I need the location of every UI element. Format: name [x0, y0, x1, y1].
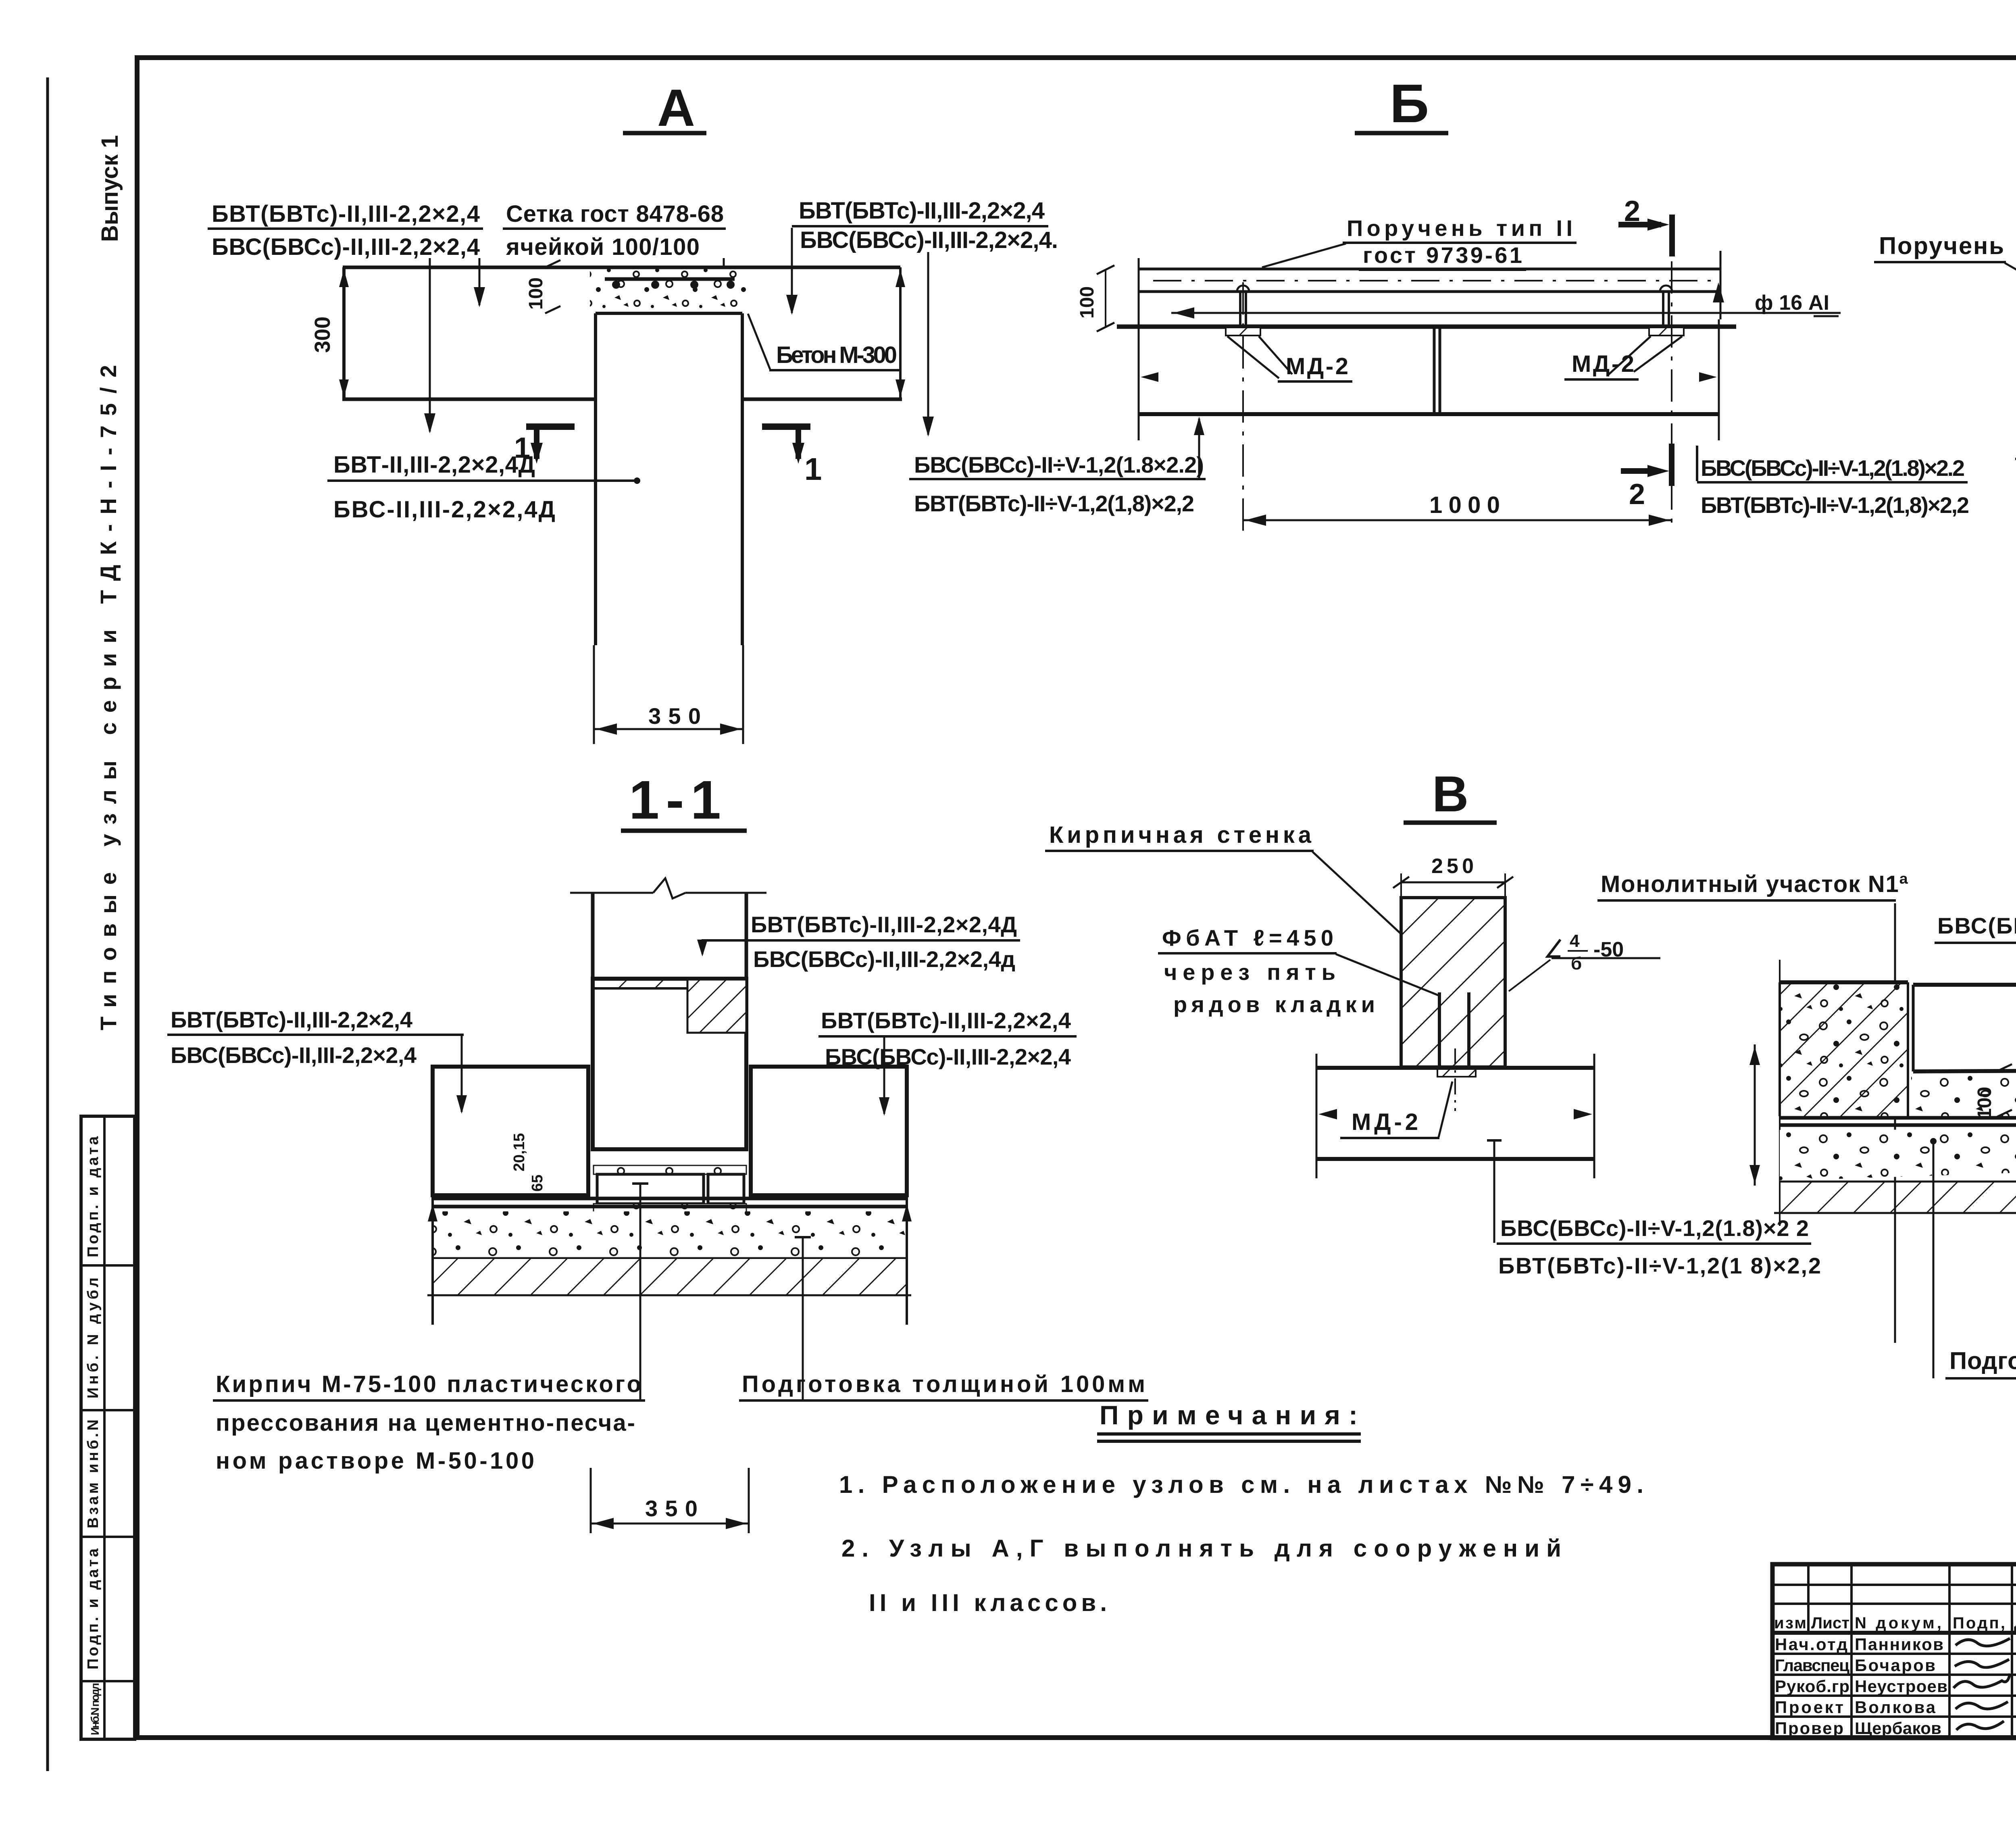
- svg-text:БВС(БВСс)-II÷V-1,2(1.8×2.2): БВС(БВСс)-II÷V-1,2(1.8×2.2): [914, 452, 1204, 477]
- svg-text:Монолитный участок N1ª: Монолитный участок N1ª: [1601, 871, 1908, 897]
- wall above left line: [591, 893, 595, 980]
- post right: [1662, 292, 1664, 327]
- svg-text:ФбАТ ℓ=450: ФбАТ ℓ=450: [1162, 925, 1333, 950]
- svg-text:Сетка гост 8478-68: Сетка гост 8478-68: [506, 201, 724, 227]
- dim 350 extension lines: [593, 645, 595, 744]
- leader V bottom labels: [1487, 1139, 1502, 1142]
- svg-text:350: 350: [648, 703, 701, 729]
- leader kirpich: [639, 1184, 641, 1401]
- svg-text:1: 1: [804, 451, 822, 487]
- rib right line: [741, 313, 744, 645]
- precast slab G: [1913, 983, 2016, 987]
- hatch band G horizontal: [1780, 1182, 2016, 1212]
- svg-text:250: 250: [1431, 854, 1474, 878]
- left block concrete: [1780, 982, 1908, 1116]
- slab left edge / dim 300 line: [342, 267, 346, 399]
- base plate left: [1226, 327, 1260, 336]
- SECTION-B: [909, 73, 1969, 531]
- anchor centerline: [1454, 1048, 1456, 1111]
- leader left short: [479, 258, 481, 305]
- svg-text:МД-2: МД-2: [1352, 1109, 1418, 1135]
- svg-text:БВС(БВСс)-II,III-2,2×2,4: БВС(БВСс)-II,III-2,2×2,4: [171, 1042, 417, 1068]
- svg-text:гост 9739-61: гост 9739-61: [1363, 242, 1522, 268]
- topping concrete stipple: [590, 267, 747, 313]
- svg-text:1-1: 1-1: [629, 769, 721, 830]
- signature scribbles: [1956, 1638, 2010, 1646]
- svg-text:Провер: Провер: [1775, 1719, 1843, 1738]
- left margin stamp table: [81, 1116, 135, 1739]
- leader right short: [791, 228, 793, 313]
- rebar in wall: [1438, 992, 1441, 1069]
- V slab right extension: [1593, 1054, 1595, 1178]
- NOTES: [839, 1400, 1643, 1616]
- svg-text:4: 4: [1570, 931, 1580, 951]
- V slab top line: [1316, 1066, 1594, 1070]
- cut mark 2 bottom: [1669, 444, 1674, 486]
- rail top line: [1139, 268, 1720, 271]
- left dim G: [1754, 1044, 1756, 1186]
- funnel right: [1608, 336, 1651, 375]
- lower slab right extension: [1718, 319, 1720, 440]
- svg-text:Кирпичная стенка: Кирпичная стенка: [1049, 822, 1312, 848]
- funnel left: [1227, 336, 1279, 378]
- rib left line: [594, 313, 597, 645]
- svg-text:изм: изм: [1774, 1614, 1806, 1632]
- label A left underline: [208, 227, 483, 230]
- svg-text:прессования на цементно-песча-: прессования на цементно-песча-: [216, 1410, 635, 1436]
- anchor plate: [1437, 1069, 1476, 1077]
- leader FbAT: [1336, 954, 1440, 996]
- hatched corner: [687, 980, 746, 1033]
- lower slab bottom line: [1139, 412, 1719, 416]
- svg-text:2: 2: [1629, 478, 1645, 511]
- leader mesh: [723, 258, 725, 282]
- svg-text:БВТ(БВТс)-II,III-2,2×2,4: БВТ(БВТс)-II,III-2,2×2,4: [799, 198, 1045, 224]
- svg-text:БВТ-II,III-2,2×2,4Д: БВТ-II,III-2,2×2,4Д: [333, 452, 535, 478]
- leader right deep: [927, 252, 929, 435]
- svg-text:Инб. N дубл: Инб. N дубл: [85, 1278, 102, 1398]
- svg-text:350: 350: [645, 1496, 698, 1521]
- channel inner line: [594, 987, 687, 990]
- svg-text:БВТ(БВТс)-II,III-2,2×2,4: БВТ(БВТс)-II,III-2,2×2,4: [212, 201, 480, 227]
- svg-text:Рукоб.гр: Рукоб.гр: [1775, 1677, 1849, 1696]
- weld mark V: [1547, 940, 1560, 957]
- svg-text:Нач.отд: Нач.отд: [1775, 1635, 1847, 1654]
- reinforcing mesh bar: [605, 277, 735, 281]
- svg-text:Главспец: Главспец: [1775, 1656, 1849, 1675]
- dim 350 line: [594, 728, 743, 730]
- leader left deep: [429, 258, 431, 431]
- svg-text:ячейкой 100/100: ячейкой 100/100: [506, 234, 700, 260]
- svg-text:БВТ(БВТс)-II,III-2,2×2,4Д: БВТ(БВТс)-II,III-2,2×2,4Д: [751, 912, 1017, 937]
- svg-text:20,15: 20,15: [511, 1133, 528, 1171]
- svg-text:Неустроев: Неустроев: [1855, 1677, 1947, 1696]
- mortar band 2: [594, 1204, 746, 1213]
- leader stenka: [1312, 852, 1435, 966]
- svg-text:Инб.N подл: Инб.N подл: [89, 1683, 101, 1735]
- leader 11 topright: [702, 940, 704, 954]
- svg-text:Поручень: Поручень: [1879, 232, 2004, 259]
- svg-text:Волкова: Волкова: [1855, 1698, 1936, 1717]
- svg-text:БВС(БВСс)-II,III-2,2×2,4: БВС(БВСс)-II,III-2,2×2,4: [825, 1044, 1071, 1069]
- svg-text:БВТ(БВТс)-II,III-2,2×2,4: БВТ(БВТс)-II,III-2,2×2,4: [821, 1008, 1071, 1033]
- lower slab left extension: [1138, 347, 1140, 440]
- svg-text:А: А: [657, 78, 695, 137]
- leader B bottomleft: [1198, 419, 1200, 478]
- monolith boundary line: [1894, 903, 1896, 1343]
- cut mark 1 left: [526, 423, 575, 430]
- right boundary: [906, 1195, 908, 1325]
- svg-text:БВС(БВСс)-II,III-2,2×2,4д: БВС(БВСс)-II,III-2,2×2,4д: [753, 946, 1015, 972]
- revision rows: [1772, 1584, 2016, 1586]
- slab joint center: [1433, 327, 1436, 413]
- brick left: [597, 1174, 704, 1204]
- flange bottom right: [742, 398, 902, 401]
- leader 11 right: [883, 1036, 885, 1114]
- svg-text:Панников: Панников: [1855, 1635, 1943, 1654]
- svg-text:БВС-II,III-2,2×2,4Д: БВС-II,III-2,2×2,4Д: [333, 496, 555, 523]
- svg-text:БВТ(БВТс)-II÷V-1,2(1,8)×2,2: БВТ(БВТс)-II÷V-1,2(1,8)×2,2: [914, 491, 1194, 516]
- slab top line: [343, 266, 900, 269]
- svg-text:БВС(БВСс)-II÷V-1,2(1.8)×2 2: БВС(БВСс)-II÷V-1,2(1.8)×2 2: [1500, 1215, 1809, 1241]
- leader poruchen: [1262, 244, 1346, 267]
- svg-text:Бочаров: Бочаров: [1855, 1656, 1935, 1675]
- V slab bottom line: [1316, 1157, 1594, 1161]
- stipple band 1 G: [1911, 1005, 2016, 1119]
- label A bottom leader underline: [327, 479, 639, 482]
- left margin stamp labels: [85, 1136, 102, 1735]
- leader podgotovka 11: [802, 1237, 804, 1401]
- svg-text:Лист: Лист: [1811, 1614, 1849, 1632]
- svg-text:МД-2: МД-2: [1572, 351, 1634, 377]
- svg-text:БВС(БВСс)-II,III-1,2×2,2пВ: БВС(БВСс)-II,III-1,2×2,2пВ: [1937, 913, 2016, 938]
- SECTION-22: [1874, 81, 2016, 586]
- mesh dots: [612, 281, 620, 289]
- underlay concrete layer: [433, 1211, 907, 1258]
- ground hatch layer: [433, 1259, 907, 1294]
- rail centerline: [1153, 280, 1714, 281]
- svg-text:100: 100: [525, 277, 547, 310]
- svg-text:Дата: Дата: [2014, 1614, 2016, 1632]
- SECTION-V: [1045, 766, 1821, 1278]
- label B bottomright bracket: [1696, 446, 1698, 481]
- base plate right: [1649, 327, 1684, 336]
- right slab box: [751, 1067, 907, 1195]
- revision columns: [1807, 1564, 1810, 1633]
- left slab box: [433, 1067, 588, 1195]
- leader 11 left: [461, 1035, 463, 1112]
- mortar band 1: [594, 1165, 746, 1174]
- svg-text:б: б: [1571, 954, 1582, 973]
- svg-text:65: 65: [529, 1175, 546, 1192]
- SECTION-A: [208, 78, 1058, 744]
- svg-text:Б: Б: [1390, 73, 1429, 134]
- svg-text:Щербаков: Щербаков: [1855, 1719, 1941, 1738]
- break line top: [570, 892, 653, 894]
- left boundary: [431, 1195, 434, 1325]
- svg-text:ном растворе М-50-100: ном растворе М-50-100: [216, 1448, 534, 1474]
- wall above right line: [745, 893, 748, 980]
- brick right: [708, 1174, 744, 1204]
- label A mesh underline: [503, 227, 726, 230]
- svg-text:300: 300: [310, 317, 335, 353]
- dim 1000 ext right: [1671, 261, 1672, 531]
- rail left extension: [1138, 258, 1140, 347]
- svg-text:БВС(БВСс)-II,III-2,2×2,4: БВС(БВСс)-II,III-2,2×2,4: [212, 234, 480, 260]
- rod f16 line: [1171, 312, 1841, 314]
- outer sheet edge line left: [46, 77, 49, 1771]
- titleblock outer: [1772, 1564, 2016, 1738]
- dim 350 bottom: [590, 1468, 592, 1533]
- svg-text:Подготовка толщиной 100мм: Подготовка толщиной 100мм: [1949, 1347, 2016, 1374]
- svg-text:Выпуск 1: Выпуск 1: [97, 135, 123, 242]
- svg-text:В: В: [1432, 766, 1468, 822]
- slab right edge / dim line: [899, 267, 902, 399]
- label A right underline: [792, 225, 1048, 227]
- svg-text:100: 100: [1077, 286, 1098, 319]
- dim 1000 line: [1243, 519, 1672, 521]
- svg-text:МД-2: МД-2: [1286, 353, 1348, 379]
- TITLEBLOCK: [1772, 1564, 2016, 1738]
- svg-text:Проект: Проект: [1775, 1698, 1843, 1717]
- post left: [1239, 292, 1241, 327]
- channel box: [593, 979, 746, 1149]
- SECTION-11: [167, 769, 1148, 1533]
- svg-text:Подп,: Подп,: [1953, 1614, 2005, 1632]
- svg-text:Бетон М-300: Бетон М-300: [776, 342, 897, 368]
- SECTION-G: [1597, 764, 2016, 1378]
- waterproofing lines: [433, 1197, 907, 1200]
- brick wall hatched: [1401, 898, 1505, 1067]
- flange bottom left: [342, 398, 596, 401]
- dim 1000 ext left: [1242, 282, 1244, 531]
- svg-text:БВС(БВСс)-II÷V-1,2(1.8)×2.2: БВС(БВСс)-II÷V-1,2(1.8)×2.2: [1701, 455, 1965, 481]
- cut mark 1 right: [762, 423, 810, 430]
- rail bottom line: [1139, 290, 1720, 293]
- rail right extension: [1720, 251, 1722, 319]
- left block extension line: [1779, 960, 1781, 1226]
- channel top hatch strip: [595, 981, 687, 988]
- deck top line: [1117, 325, 1736, 329]
- rib top line: [596, 312, 742, 315]
- V slab left extension: [1316, 1054, 1318, 1178]
- svg-text:100: 100: [1974, 1087, 1995, 1119]
- svg-text:БВС(БВСс)-II,III-2,2×2,4.: БВС(БВСс)-II,III-2,2×2,4.: [800, 227, 1058, 253]
- svg-text:БВТ(БВТс)-II,III-2,2×2,4: БВТ(БВТс)-II,III-2,2×2,4: [171, 1007, 412, 1032]
- leader podgotovka G: [1933, 1143, 1935, 1378]
- waterproofing G horizontal: [1780, 1116, 2016, 1120]
- svg-text:БВТ(БВТс)-II÷V-1,2(1,8)×2,2: БВТ(БВТс)-II÷V-1,2(1,8)×2,2: [1701, 492, 1969, 518]
- svg-text:ф 16 АI: ф 16 АI: [1755, 291, 1829, 315]
- stipple band 2 G: [1780, 1019, 2016, 1181]
